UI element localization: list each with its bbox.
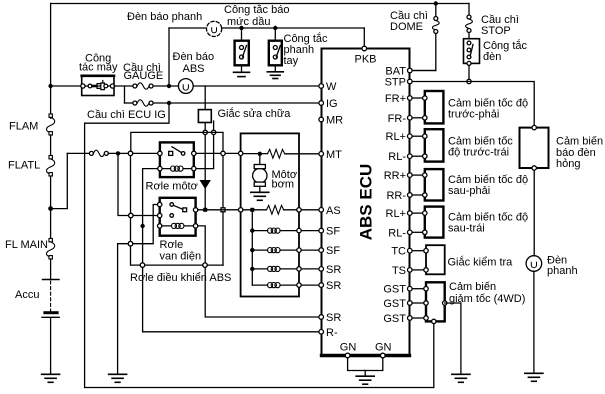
svg-text:GST: GST xyxy=(383,284,406,296)
svg-text:sau-phải: sau-phải xyxy=(448,185,490,197)
switch light (Cong tac den) box xyxy=(464,39,480,80)
wire AS row xyxy=(198,209,267,211)
sensor bulb-failure box xyxy=(520,125,549,255)
svg-text:bơm: bơm xyxy=(272,179,295,191)
svg-text:Accu: Accu xyxy=(15,289,39,301)
svg-text:AS: AS xyxy=(326,205,341,217)
relay valve box xyxy=(158,198,198,236)
sensor speed front-left box xyxy=(423,129,444,161)
relay motor box xyxy=(158,142,196,177)
wire valve row1 to j244 xyxy=(133,205,158,244)
node junction oil switch xyxy=(239,26,243,30)
node junction AS feed xyxy=(250,208,254,212)
svg-text:giảm tốc (4WD): giảm tốc (4WD) xyxy=(449,293,525,305)
coil SR2 xyxy=(252,284,296,286)
pin TS xyxy=(408,268,413,273)
wire valve coil to SR3 xyxy=(198,226,319,317)
svg-text:Rơle: Rơle xyxy=(160,239,184,251)
svg-text:Giắc sửa chữa: Giắc sửa chữa xyxy=(218,107,292,120)
pin GST 2 xyxy=(408,301,413,306)
svg-text:độ trước-trái: độ trước-trái xyxy=(448,147,509,159)
pin PKB xyxy=(362,46,367,51)
pin RL- rear xyxy=(408,230,413,235)
svg-text:STP: STP xyxy=(385,77,406,89)
svg-text:FL MAIN: FL MAIN xyxy=(5,239,48,251)
pin BAT xyxy=(408,68,413,73)
svg-text:mức dầu: mức dầu xyxy=(227,16,270,28)
pin TC xyxy=(408,248,413,253)
sensor speed rear-left box xyxy=(423,207,444,238)
wire PKB drop xyxy=(363,28,365,48)
lamp ABS warning xyxy=(178,79,193,94)
node junction feed x118 xyxy=(116,151,120,155)
svg-text:SF: SF xyxy=(326,226,340,238)
ground ECU GN xyxy=(348,358,383,384)
svg-text:SF: SF xyxy=(326,245,340,257)
pin RL+ rear xyxy=(408,211,413,216)
svg-text:R-: R- xyxy=(326,327,338,339)
node square AS x223 xyxy=(221,208,225,212)
pin STP xyxy=(408,79,413,84)
fuse STOP drop xyxy=(466,4,473,39)
fuse ECU IG xyxy=(125,100,154,106)
pin SF 2 xyxy=(319,248,324,253)
pin RR+ xyxy=(408,173,413,178)
wire x118 drop to valve relay row2 xyxy=(118,153,158,215)
wire ECU-IG loop to left bus xyxy=(85,103,169,123)
wire GST2 xyxy=(412,302,424,304)
ground deceleration xyxy=(452,374,470,382)
pin SR 1 xyxy=(319,267,324,272)
svg-text:Giắc kiểm tra: Giắc kiểm tra xyxy=(448,256,514,269)
node junction gauge line xyxy=(167,84,171,88)
wire GST3 xyxy=(412,317,424,319)
wire RL+ xyxy=(412,135,423,137)
wire GST box to rail xyxy=(433,324,435,388)
wire motor relay coil left to R- bus xyxy=(143,169,158,330)
wire x130 drop to junction 244 xyxy=(130,153,132,243)
svg-text:MT: MT xyxy=(326,149,342,161)
coil SF2 xyxy=(252,249,296,251)
fuse FLAM xyxy=(46,114,54,157)
pin SF 1 xyxy=(319,228,324,233)
node junction coils xyxy=(140,224,144,228)
wire FR+ xyxy=(412,97,423,99)
svg-text:PKB: PKB xyxy=(355,54,377,66)
fuse GAUGE xyxy=(133,83,153,89)
box pump unit xyxy=(239,133,320,296)
wire top rail xyxy=(51,3,469,5)
svg-text:tác máy: tác máy xyxy=(79,62,118,74)
svg-text:STOP: STOP xyxy=(481,25,511,37)
wire motor relay coil right to service c2 xyxy=(196,135,214,169)
node connector MT x223 xyxy=(221,151,225,155)
pin FR- xyxy=(408,116,413,121)
wire GST box right to ground xyxy=(445,303,461,374)
pin GST 1 xyxy=(408,286,413,291)
svg-text:DOME: DOME xyxy=(390,21,423,33)
svg-text:RR+: RR+ xyxy=(384,170,406,182)
svg-text:Cầu chì ECU IG: Cầu chì ECU IG xyxy=(87,109,166,121)
wire RL- xyxy=(412,155,423,157)
switch oil level box xyxy=(234,28,250,77)
ECU ABS box xyxy=(322,49,410,356)
svg-text:RL+: RL+ xyxy=(386,131,407,143)
svg-text:Cảm biến: Cảm biến xyxy=(449,281,496,293)
svg-text:RL+: RL+ xyxy=(386,208,407,220)
svg-text:SR: SR xyxy=(326,280,341,292)
pin SR 3 xyxy=(319,315,324,320)
svg-text:trước-phải: trước-phải xyxy=(448,109,499,121)
svg-text:TS: TS xyxy=(392,265,406,277)
switch ignition (Cong tac may) box xyxy=(81,76,115,96)
node connector 265a xyxy=(140,263,144,267)
wire IG line to ECU xyxy=(153,102,321,104)
battery Accu xyxy=(42,280,59,375)
svg-text:tay: tay xyxy=(284,55,299,67)
lamp brake warning (dashed) xyxy=(207,21,222,36)
wire main ignition line xyxy=(51,85,82,87)
svg-text:MR: MR xyxy=(326,115,343,127)
svg-text:Cảm biến: Cảm biến xyxy=(556,136,603,148)
svg-text:Rơle môtơ: Rơle môtơ xyxy=(146,181,198,193)
svg-text:W: W xyxy=(326,81,337,93)
pin RL- xyxy=(408,154,413,159)
svg-text:RR-: RR- xyxy=(386,190,406,202)
resistor AS xyxy=(267,205,284,214)
wire TC xyxy=(412,250,424,252)
svg-text:van điện: van điện xyxy=(160,251,202,263)
wire left bus V1 xyxy=(84,123,86,387)
pin GN 1 xyxy=(345,353,350,358)
wire FR- xyxy=(412,117,423,119)
svg-text:IG: IG xyxy=(326,98,338,110)
node junction motor tap xyxy=(258,152,262,156)
node connector feed x130 xyxy=(128,151,132,155)
svg-text:Đèn báo: Đèn báo xyxy=(173,51,215,63)
sensor speed front-right box xyxy=(423,91,444,123)
wire MT line xyxy=(196,152,319,154)
svg-text:Đèn báo phanh: Đèn báo phanh xyxy=(127,11,202,23)
pin SR 2 xyxy=(319,283,324,288)
pin GST 3 xyxy=(408,316,413,321)
node connector j244 xyxy=(128,242,132,246)
node connector 265a xyxy=(140,263,144,267)
connector service box xyxy=(131,86,223,265)
node connector row2 xyxy=(129,213,133,217)
svg-text:FLATL: FLATL xyxy=(8,160,40,172)
svg-text:FR-: FR- xyxy=(388,113,407,125)
wire to GAUGE fuse xyxy=(114,85,133,87)
wire j244 to ground drop xyxy=(118,244,131,374)
pin GN 2 xyxy=(381,353,386,358)
node connector feed x130 xyxy=(128,151,132,155)
wire brake-lamp top line xyxy=(169,27,364,29)
wire battery feed vertical xyxy=(50,4,52,119)
lamp brake light Den phanh xyxy=(526,256,542,373)
pin FR+ xyxy=(408,96,413,101)
wire TS xyxy=(412,269,424,271)
svg-text:hỏng: hỏng xyxy=(556,158,580,170)
node connector row2 xyxy=(129,213,133,217)
wire GAUGE to lamp xyxy=(153,85,178,87)
switch handbrake box xyxy=(267,28,283,79)
wire BAT xyxy=(412,70,436,72)
node junction top rail xyxy=(434,1,438,5)
node connector 265b xyxy=(203,263,207,267)
wire lamp to W pin xyxy=(193,85,321,87)
svg-text:GN: GN xyxy=(375,342,392,354)
fuse FLATL xyxy=(46,156,54,239)
ground brake light xyxy=(525,373,543,381)
fuse DOME drop xyxy=(412,4,439,71)
svg-text:RL-: RL- xyxy=(388,227,406,239)
wire RR+ xyxy=(412,174,423,176)
wire R- to ECU xyxy=(143,330,319,332)
wire feed vertical xyxy=(251,210,253,285)
coil SR1 xyxy=(252,268,296,270)
node connector AS border R xyxy=(297,208,301,212)
wire RL-2 xyxy=(412,231,423,233)
node connector AS border L xyxy=(239,208,243,212)
diode service drop xyxy=(200,135,210,212)
sensor speed rear-right box xyxy=(423,169,444,200)
svg-text:RL-: RL- xyxy=(388,151,406,163)
wire relay feed from battery xyxy=(51,153,68,208)
svg-text:FR+: FR+ xyxy=(385,93,406,105)
ground left xyxy=(109,374,127,382)
pin W xyxy=(319,84,324,89)
svg-text:Công tắc báo: Công tắc báo xyxy=(224,3,289,16)
svg-text:GAUGE: GAUGE xyxy=(124,70,164,82)
svg-text:SR: SR xyxy=(326,312,341,324)
node junction IG line xyxy=(167,101,171,105)
connector check box xyxy=(424,245,445,274)
pin RL+ xyxy=(408,134,413,139)
coil SF1 xyxy=(252,230,296,232)
svg-text:ABS: ABS xyxy=(183,63,205,75)
node junction STP xyxy=(467,79,471,83)
wire RL+2 xyxy=(412,212,423,214)
resistor MT xyxy=(268,149,285,158)
pin MR xyxy=(319,117,324,122)
ground battery xyxy=(42,374,60,382)
svg-text:SR: SR xyxy=(326,264,341,276)
node connector 265b xyxy=(203,263,207,267)
pin IG xyxy=(319,101,324,106)
wire relay feed line xyxy=(67,152,89,154)
svg-text:GST: GST xyxy=(383,313,406,325)
pin R- xyxy=(319,330,324,335)
fuse relay feed xyxy=(89,150,108,156)
svg-text:GST: GST xyxy=(383,298,406,310)
svg-text:TC: TC xyxy=(391,246,406,258)
wire j244 down to 265 rail xyxy=(131,244,224,265)
motor pump xyxy=(253,168,267,182)
node junction handbrake switch xyxy=(273,26,277,30)
pin AS xyxy=(319,208,324,213)
wire GST1 xyxy=(412,288,424,290)
node main feed junction xyxy=(48,84,52,88)
node connector MT box border xyxy=(239,151,243,155)
wire bottom rail xyxy=(85,387,434,389)
pin RR- xyxy=(408,193,413,198)
svg-text:GN: GN xyxy=(340,342,357,354)
node connector j244 xyxy=(128,242,132,246)
sensor deceleration box xyxy=(424,282,447,323)
svg-text:FLAM: FLAM xyxy=(9,121,38,133)
branch ECU IG xyxy=(124,86,126,103)
wire RR- xyxy=(412,194,423,196)
svg-text:phanh: phanh xyxy=(547,265,578,277)
svg-text:đèn: đèn xyxy=(483,51,501,63)
svg-text:Rơle điều khiển ABS: Rơle điều khiển ABS xyxy=(130,272,231,284)
svg-text:ABS ECU: ABS ECU xyxy=(357,164,376,241)
pin MT xyxy=(319,152,324,157)
wire STP to lamp sensor xyxy=(412,82,534,126)
svg-text:sau-trái: sau-trái xyxy=(448,222,485,234)
fuse FL MAIN xyxy=(46,239,54,280)
